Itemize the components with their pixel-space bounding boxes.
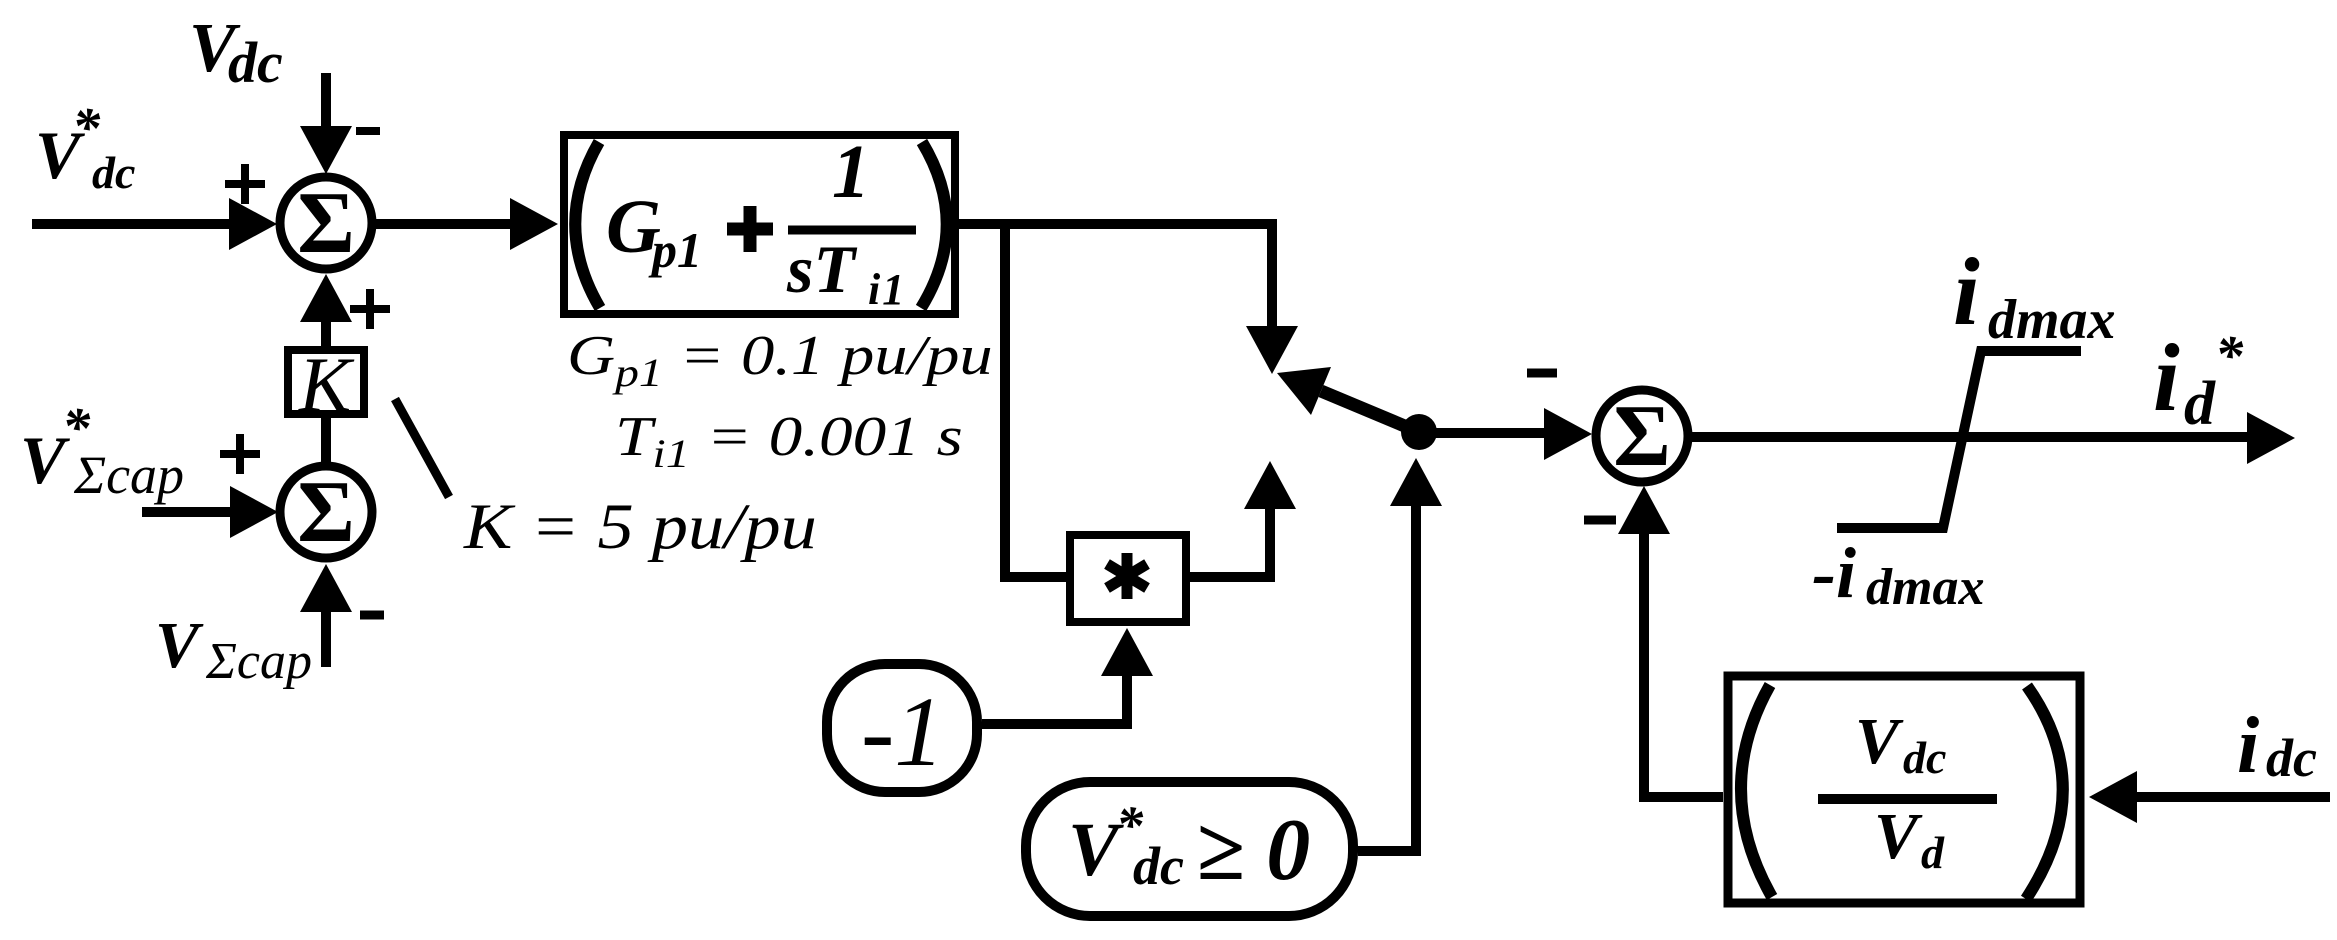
PI block left parenthesis [575,142,600,308]
summing junction S3 [1596,390,1688,482]
multiplier asterisk [1107,553,1147,599]
svg-text:Σcap: Σcap [205,633,312,690]
pointer line from K label [395,399,449,497]
arrowhead into S2 left [230,486,278,538]
PI block right parenthesis [921,142,947,308]
svg-text:dmax: dmax [1866,559,1984,616]
PI controller block [564,135,955,314]
wire: branch down to multiplier box [1005,224,1067,577]
wire: comparator stadium up to switch pivot [1358,506,1416,851]
wire: S1 output to PI block [376,219,514,229]
wire: switch pivot to S3 [1419,428,1546,438]
svg-text:*: * [2215,325,2244,387]
gain block K [288,350,364,414]
divider block Vdc/Vd [1728,676,2080,903]
arrowhead up into switch pivot [1390,458,1442,506]
plus sign at S1 left [225,164,265,204]
svg-text:-i: -i [1812,533,1856,613]
divider fraction bar [1818,794,1997,804]
svg-text:dc: dc [1903,732,1946,783]
minus sign at S2 bottom [360,611,384,620]
arrowhead into S1 left [229,198,277,250]
svg-text:dc: dc [228,30,283,95]
wire: K block down to S2 top [321,418,331,462]
wire: -1 block to multiplier bottom [982,676,1127,724]
wire: VΣcap up into S2 bottom [321,612,331,667]
multiplier block [1070,535,1186,622]
svg-text:Σcap: Σcap [73,445,184,505]
svg-text:i: i [2237,702,2259,790]
svg-text:d: d [2184,370,2216,438]
switch lever [1321,391,1419,432]
minus sign at S1 top [356,127,380,135]
svg-text:≥ 0: ≥ 0 [1196,802,1310,899]
svg-text:K = 5 pu/pu: K = 5 pu/pu [463,490,817,562]
svg-text:K: K [298,341,355,428]
wire: Vdc* input into summing junction S1 [32,219,231,229]
svg-text:i: i [1953,238,1980,345]
arrowhead left into Vdc/Vd block [2089,771,2137,823]
arrowhead output id* [2247,412,2295,464]
svg-text:sT: sT [786,231,857,307]
svg-text:1: 1 [832,130,870,214]
plus sign at S2 left [220,434,260,474]
minus sign at S3 left [1527,369,1557,378]
wire: K block up into S1 bottom [321,322,331,346]
svg-text:p1: p1 [648,222,702,278]
svg-text:V: V [1874,800,1923,873]
minus sign at S3 bottom [1584,516,1616,525]
arrowhead up at switch lower-left contact [1244,461,1296,509]
switch lever arrowhead [1277,367,1331,415]
svg-text:V: V [1855,705,1904,778]
summing junction S1 [280,177,372,269]
summing junction S2 [280,466,372,558]
label K value [463,490,817,562]
arrowhead into S1 bottom [300,274,352,322]
arrowhead into S3 left [1544,408,1592,460]
svg-text:i: i [2153,324,2180,431]
svg-text:Σ: Σ [1613,388,1671,485]
wire: idc input into Vdc/Vd block [2135,792,2330,802]
minus-one block [827,664,977,792]
svg-text:dc: dc [92,147,135,198]
wire: VΣcap* input into S2 [142,507,232,517]
arrowhead into S2 bottom [300,564,352,612]
svg-text:i1: i1 [868,265,906,314]
svg-text:Σ: Σ [297,175,355,272]
svg-text:-1: -1 [861,676,944,787]
label Ti1 value [615,406,963,476]
divider left parenthesis [1741,685,1772,897]
svg-text:dc: dc [2266,728,2317,788]
arrowhead down at switch upper contact [1246,326,1298,374]
arrowhead into S1 top [300,126,352,174]
wire: PI output right then down to switch upper contact [959,224,1272,328]
divider right parenthesis [2026,686,2063,899]
PI block plus sign [727,206,773,252]
label Gp1 value [567,325,993,395]
svg-text:d: d [1921,827,1945,878]
PI block fraction bar [788,226,916,235]
wire: multiplier output right then up to switch lower contact [1186,509,1270,577]
arrowhead into PI block [510,198,558,250]
wire: Vdc/Vd block feedback into S3 bottom [1644,534,1723,797]
svg-text:dc: dc [1133,836,1184,896]
switch pivot junction dot [1401,414,1437,450]
wire: S3 output to id* [1692,432,2249,442]
svg-text:dmax: dmax [1988,289,2116,351]
comparator stadium [1026,782,1353,916]
wire: Vdc down into S1 top [321,73,331,128]
saturation limiter symbol [1837,351,2081,528]
plus sign at S1 bottom [350,289,390,329]
svg-text:V: V [155,609,204,682]
arrowhead up into multiplier bottom [1101,628,1153,676]
arrowhead up into S3 bottom [1618,486,1670,534]
svg-text:Σ: Σ [297,464,355,561]
